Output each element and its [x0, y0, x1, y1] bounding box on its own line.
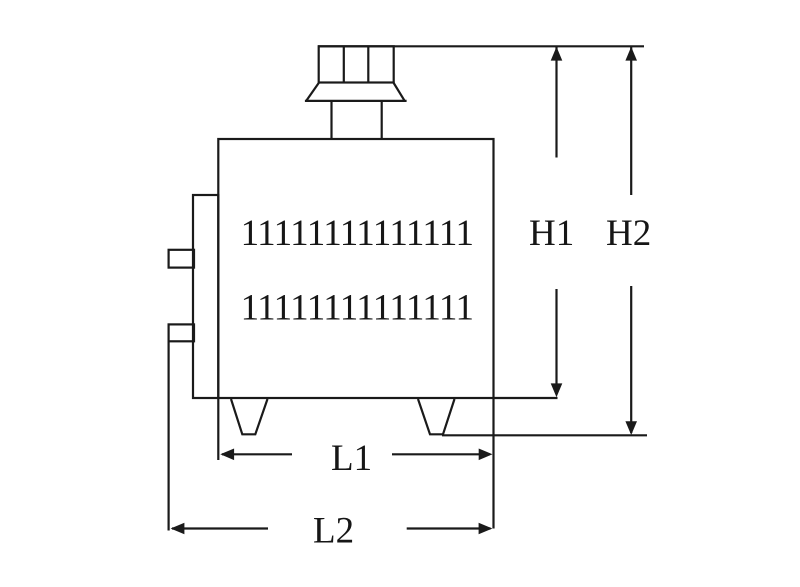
H2 up arrowhead [625, 47, 637, 61]
svg-text:H1: H1 [529, 213, 574, 254]
feet bottom extension line [442, 434, 647, 436]
lower tab [169, 324, 194, 341]
trapezoid flange [305, 83, 407, 101]
svg-text:L2: L2 [313, 511, 354, 552]
cap box divider left [343, 46, 345, 82]
L2 dimension line right segment [407, 527, 491, 529]
svg-text:L1: L1 [331, 438, 372, 479]
left panel [193, 195, 218, 398]
body left edge extension [217, 398, 219, 460]
left foot [231, 399, 268, 434]
svg-text:H2: H2 [606, 213, 651, 254]
neck left edge [330, 101, 332, 139]
H1 dimension line upper segment [555, 47, 557, 158]
svg-text:11111111111111: 11111111111111 [241, 288, 474, 329]
H2 down arrowhead [625, 421, 637, 435]
L1 left arrowhead [220, 449, 234, 461]
H2 dimension line upper segment [630, 47, 632, 195]
L2 left extension line [168, 341, 170, 530]
L2 dimension line left segment [172, 527, 268, 529]
top extension line [318, 45, 644, 47]
cap box divider right [367, 46, 369, 82]
body bottom extension line [494, 397, 558, 399]
L1 dimension line left segment [222, 453, 292, 455]
L1 right arrowhead [479, 449, 493, 461]
neck right edge [381, 101, 383, 139]
H1 down arrowhead [551, 383, 563, 397]
body right edge extension [492, 398, 494, 529]
H2 dimension line lower segment [630, 286, 632, 433]
L1 dimension line right segment [392, 453, 490, 455]
cap top box [319, 46, 394, 82]
H1 up arrowhead [551, 47, 563, 61]
svg-text:11111111111111: 11111111111111 [241, 213, 474, 254]
upper tab [169, 250, 194, 268]
L2 right arrowhead [479, 523, 493, 535]
L2 left arrowhead [171, 523, 185, 535]
main body [218, 139, 493, 398]
right foot [418, 399, 455, 434]
H1 dimension line lower segment [555, 289, 557, 394]
